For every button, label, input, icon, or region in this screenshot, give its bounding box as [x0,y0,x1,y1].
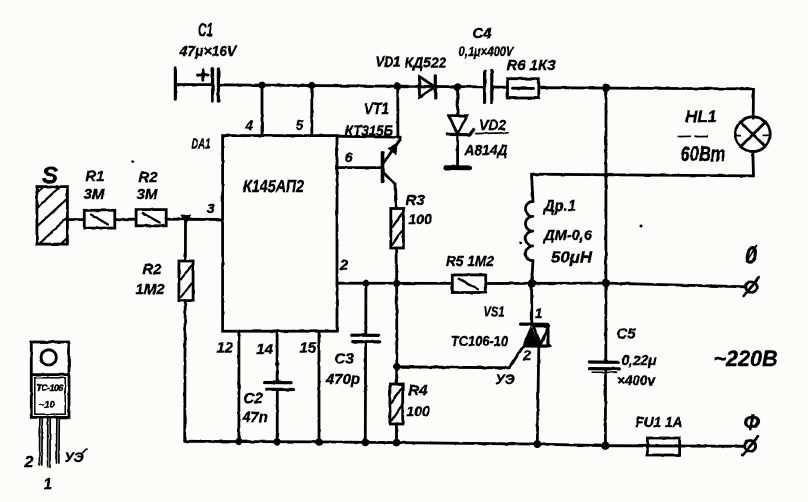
svg-text:C5: C5 [616,326,636,343]
svg-text:1: 1 [535,305,543,321]
svg-text:HL1: HL1 [686,107,717,126]
svg-text:R3: R3 [405,192,425,209]
svg-text:Др.1: Др.1 [542,198,576,215]
svg-text:Ф: Ф [744,410,761,435]
svg-text:УЭ: УЭ [495,371,514,387]
svg-text:FU1 1А: FU1 1А [636,414,683,431]
svg-text:VS1: VS1 [484,304,505,321]
svg-text:R2: R2 [138,169,158,186]
svg-text:VT1: VT1 [364,101,389,118]
svg-text:2: 2 [522,347,531,363]
svg-text:0,22μ: 0,22μ [622,352,658,368]
svg-text:×400v: ×400v [617,372,656,388]
svg-text:C4: C4 [472,25,492,42]
svg-text:ТС106-10: ТС106-10 [451,333,509,350]
svg-text:100: 100 [408,211,432,227]
svg-text:КД522: КД522 [405,55,448,72]
svg-text:47μ×16V: 47μ×16V [179,44,238,60]
svg-text:~220В: ~220В [714,346,778,371]
svg-text:УЭ: УЭ [64,449,83,465]
svg-text:R4: R4 [408,382,428,399]
svg-text:А814Д: А814Д [464,142,508,159]
svg-text:470p: 470p [325,371,360,388]
svg-text:VD1: VD1 [376,54,401,71]
svg-text:60Вт: 60Вт [681,142,726,166]
svg-text:C1: C1 [198,20,213,40]
svg-text:14: 14 [256,341,273,358]
svg-text:VD2: VD2 [479,117,507,134]
svg-text:15: 15 [300,340,317,357]
svg-text:C3: C3 [334,351,354,368]
svg-text:1: 1 [43,476,52,493]
svg-text:6: 6 [345,149,353,165]
svg-text:КТ315Б: КТ315Б [345,123,393,140]
svg-text:К145АП2: К145АП2 [243,176,304,196]
svg-text:2: 2 [23,454,33,471]
svg-text:R5 1М2: R5 1М2 [446,253,495,270]
svg-text:3: 3 [207,200,215,216]
svg-text:~10: ~10 [38,400,55,411]
svg-text:R1: R1 [85,168,104,185]
svg-text:5: 5 [296,117,304,133]
svg-text:12: 12 [216,340,233,357]
svg-text:50μН: 50μН [551,250,593,267]
svg-text:R2: R2 [142,261,162,278]
svg-text:1М2: 1М2 [135,281,165,298]
svg-text:47n: 47n [241,409,268,426]
svg-text:C2: C2 [243,390,263,407]
svg-text:100: 100 [406,403,430,419]
svg-text:3М: 3М [84,186,105,203]
svg-text:R6 1К3: R6 1К3 [507,57,557,74]
svg-text:2: 2 [339,257,349,274]
svg-text:S: S [42,163,58,190]
svg-text:DA1: DA1 [192,136,211,153]
svg-text:ДМ-0,6: ДМ-0,6 [542,227,593,244]
svg-text:4: 4 [244,117,253,133]
svg-text:3М: 3М [137,186,158,203]
svg-text:ТС-106: ТС-106 [36,383,64,393]
